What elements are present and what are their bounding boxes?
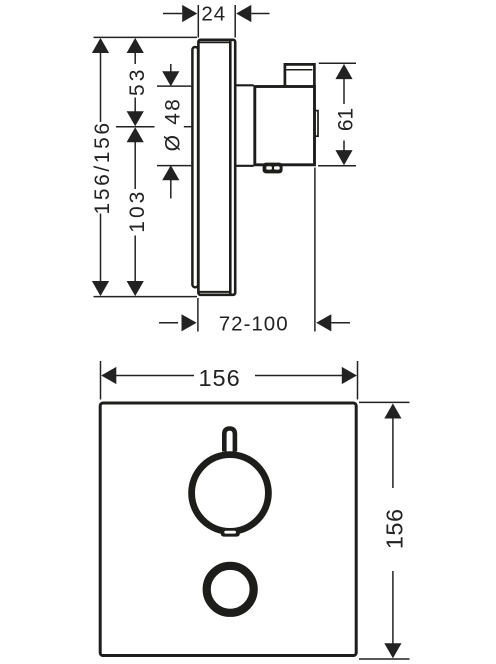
bottom connector slot left [266, 166, 272, 169]
thermostat handle ring [192, 455, 269, 532]
handle index tab [224, 429, 235, 452]
dimension front 156 left wire [116, 375, 195, 377]
dimension front 156 left arrow [101, 367, 116, 384]
dimension 53 bottom arrow [127, 111, 144, 126]
dimension diameter 48 lower arrow [162, 165, 179, 180]
extension line 61 bottom [318, 165, 356, 167]
plate side view outline [198, 40, 235, 295]
svg-text:103: 103 [126, 189, 149, 233]
dimension diameter 48 upper tail wire [170, 64, 172, 72]
svg-text:61: 61 [334, 108, 357, 131]
bottom connector pill [263, 163, 283, 174]
glass pane front strip [192, 47, 198, 287]
dimension front 156 right arrow [342, 367, 357, 384]
dimension 24 left tail wire [163, 13, 182, 15]
dimension diameter 48 upper arrow [162, 71, 179, 86]
dimension 61 lower wire [343, 141, 345, 153]
handle bottom grip slot [224, 531, 236, 534]
dimension 61 top arrow [335, 64, 352, 79]
dimension 24 left arrow [182, 5, 197, 22]
svg-text:156/156: 156/156 [91, 120, 114, 214]
right side bump [315, 111, 318, 137]
collar top edge [237, 84, 254, 86]
shut-off knob ring [207, 566, 254, 613]
extension line circle bottom [157, 165, 191, 167]
dimension front right 156 top arrow [384, 403, 401, 418]
extension line front 156 left [100, 361, 102, 400]
dimension 156/156 bottom arrow [92, 281, 109, 296]
svg-text:24: 24 [201, 3, 226, 26]
svg-text:156: 156 [381, 508, 407, 549]
svg-text:Ø 48: Ø 48 [161, 97, 184, 151]
extension line 24 left [197, 5, 199, 38]
svg-text:53: 53 [126, 67, 149, 96]
collar bottom edge [237, 165, 254, 167]
dimension diameter 48 lower tail wire [170, 180, 172, 199]
dimension 24 right tail wire [251, 13, 269, 15]
dimension 156/156 lower wire [100, 214, 102, 283]
stop valve box inner line [286, 69, 312, 71]
dimension front right 156 upper wire [392, 418, 394, 489]
svg-text:156: 156 [198, 365, 240, 391]
dimension front right 156 bottom arrow [384, 643, 401, 658]
extension line bottom of plate [94, 296, 198, 298]
bottom connector slot right [274, 166, 280, 169]
handle bottom grip [221, 528, 240, 536]
extension line front right 156 bottom [359, 658, 410, 660]
extension line top of plate [94, 36, 198, 38]
dimension 103 bottom arrow [127, 281, 144, 296]
extension line circle top [157, 85, 191, 87]
stop valve box on top [285, 64, 315, 86]
dimension 72-100 left tail wire [159, 322, 178, 324]
extension line circle center [184, 126, 192, 128]
dimension 156/156 upper wire [100, 52, 102, 122]
dimension 72-100 right arrow [316, 314, 331, 331]
extension line 61 top [319, 62, 356, 64]
dimension 53 top arrow [127, 38, 144, 53]
svg-text:72-100: 72-100 [219, 313, 289, 336]
junction tick wire [116, 126, 155, 128]
dimension 61 bottom arrow [335, 150, 352, 165]
plate inner back edge [229, 41, 232, 295]
extension line 24 right [234, 5, 236, 38]
dimension front 156 right wire [255, 375, 342, 377]
dimension 72-100 left arrow [182, 314, 197, 331]
extension line 72-100 left [197, 298, 199, 332]
dimension 156/156 top arrow [92, 38, 109, 53]
extension line 72-100 right [314, 168, 316, 332]
valve body box [255, 87, 315, 165]
dimension 53 lower wire [134, 98, 136, 113]
plate inner top edge [200, 41, 230, 43]
dimension 103 top arrow [127, 127, 144, 142]
extension line front 156 right [357, 361, 359, 400]
dimension 53 upper wire [134, 52, 136, 64]
dimension 72-100 right tail wire [331, 322, 350, 324]
dimension 103 upper wire [134, 142, 136, 190]
dimension 61 upper wire [343, 78, 345, 104]
front view plate [100, 403, 356, 656]
extension line front right 156 top [359, 401, 410, 403]
plate inner bottom edge [200, 291, 230, 293]
dimension 103 lower wire [134, 236, 136, 283]
dimension front right 156 lower wire [392, 571, 394, 644]
dimension 24 right arrow [236, 5, 251, 22]
